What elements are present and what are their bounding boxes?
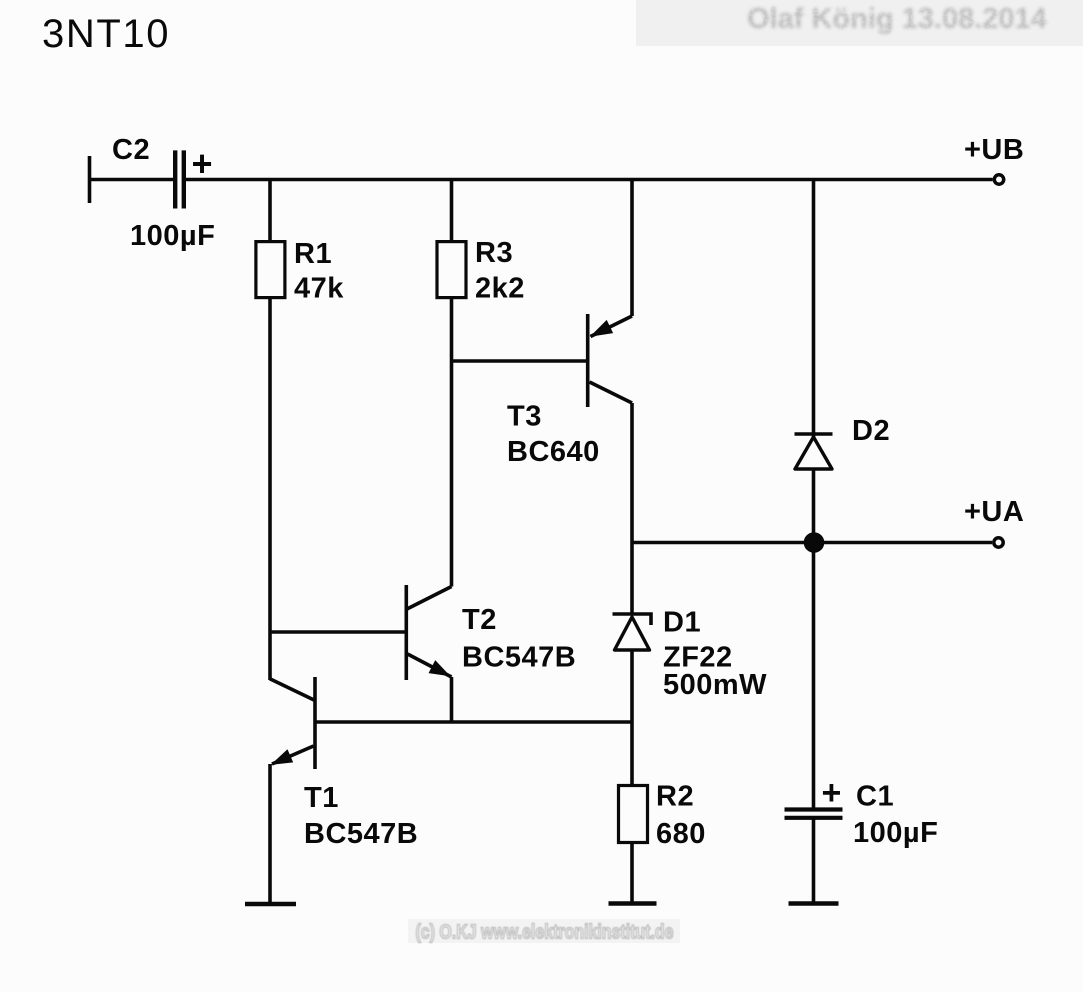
svg-text:100µF: 100µF [853,817,938,849]
wire D2 anode to +UA node [812,469,816,542]
wire T1 base to D1 anode net [315,720,632,724]
ground C1 [789,901,839,906]
svg-text:BC547B: BC547B [304,818,418,850]
wire C1 top to +UA node [812,543,816,809]
capacitor C1 [785,810,843,818]
wire T3 emitter to +UB rail [630,180,634,317]
watermark box top right [636,0,1083,46]
resistor R3 [437,242,466,298]
svg-text:BC547B: BC547B [462,642,576,674]
zener diode D1 [613,614,652,650]
svg-text:C2: C2 [112,134,150,166]
svg-text:T3: T3 [507,401,542,433]
svg-text:BC640: BC640 [507,436,600,468]
svg-text:3NT10: 3NT10 [42,12,170,56]
svg-text:D1: D1 [663,607,701,639]
svg-text:Olaf König 13.08.2014: Olaf König 13.08.2014 [747,3,1047,35]
wire D2 cathode to +UB rail [812,180,816,438]
svg-text:T2: T2 [462,604,497,636]
wire T2 base [270,630,406,634]
svg-text:+UA: +UA [964,496,1024,528]
resistor R2 [619,786,648,843]
transistor T3 [588,314,632,407]
wire T3 base [452,359,587,363]
svg-text:+: + [822,774,842,812]
wire C2 input lead [88,156,173,203]
wire C1 bottom [812,818,816,903]
wire +UA rail [632,541,992,545]
svg-text:D2: D2 [852,415,890,447]
wire T1 emitter to ground [268,764,272,904]
transistor T2 [406,585,451,680]
capacitor C2 [175,150,184,208]
T1 emitter arrow [273,751,292,764]
wire R1 top [268,180,272,244]
wire D1 anode to R2 [630,650,634,786]
svg-text:T1: T1 [304,782,339,814]
svg-text:500mW: 500mW [663,669,767,701]
svg-text:2k2: 2k2 [475,273,525,305]
T3 emitter arrow [592,321,612,336]
wire R1 bottom to T1 collector node [268,298,272,681]
transistor T1 [270,677,315,769]
wire T3 collector down to +UA node [630,403,634,615]
wire T2 emitter down [450,677,454,722]
svg-text:R2: R2 [656,781,694,813]
svg-text:100µF: 100µF [130,220,215,252]
ground T1 [245,902,296,907]
resistor R1 [256,242,285,298]
svg-text:C1: C1 [856,781,894,813]
wire top rail +UB net [186,178,993,182]
svg-text:47k: 47k [294,273,344,305]
svg-text:+UB: +UB [964,134,1024,166]
terminal +UB [994,175,1003,184]
svg-text:R1: R1 [294,238,332,270]
ground R2 [609,901,657,906]
diode D2 [795,434,833,469]
svg-text:680: 680 [656,818,706,850]
wire R3 bottom to T2 collector [450,298,454,587]
junction node +UA [804,532,825,553]
wire R2 bottom [630,843,634,904]
svg-text:R3: R3 [475,237,513,269]
wire R3 top [450,180,454,244]
terminal +UA [994,538,1003,547]
T2 emitter arrow [430,661,449,675]
svg-text:(c) O.KJ www.elektronikinstitu: (c) O.KJ www.elektronikinstitut.de [416,922,674,944]
watermark bottom [408,919,680,944]
